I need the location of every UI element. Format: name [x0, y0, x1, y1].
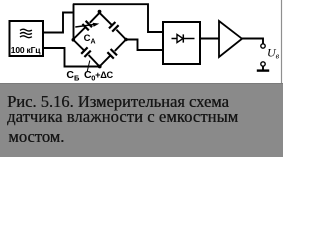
capacitor CA arrow head	[93, 23, 100, 27]
node R junction dot	[124, 38, 128, 42]
ground bar	[257, 69, 269, 71]
capacitor CA plates	[82, 21, 92, 31]
wire top rail to detector	[73, 4, 163, 32]
top-right capacitor plates	[109, 22, 119, 32]
detector U1 box	[163, 22, 200, 64]
bridge arm T-R with capacitor gap	[100, 13, 127, 40]
generator G1 box	[10, 21, 44, 56]
leader line for C0 label	[87, 61, 90, 72]
scan edge line right	[281, 0, 283, 83]
svg-text:CБ: CБ	[66, 69, 80, 83]
bridge arm L-B with capacitor C0 gap	[73, 40, 100, 67]
svg-text:CА: CА	[84, 33, 96, 46]
svg-text:C0+ΔC: C0+ΔC	[84, 69, 114, 83]
output terminal bottom circle	[261, 62, 265, 66]
wire detector output	[200, 38, 219, 40]
diode VD1	[172, 34, 195, 42]
wire generator bottom output to bridge bottom node	[43, 48, 100, 67]
wire generator top output	[43, 13, 73, 33]
node T junction dot	[98, 10, 102, 14]
capacitor CA variable arrow	[75, 24, 95, 27]
ground stem	[262, 66, 264, 69]
output terminal top circle	[261, 44, 265, 48]
generator sine symbol	[20, 29, 32, 37]
bridge arm B-R with capacitor gap	[100, 40, 127, 67]
bottom-left capacitor plates	[81, 47, 91, 57]
wire bridge right node to detector	[126, 40, 163, 51]
node B junction dot	[98, 65, 102, 69]
node L junction dot	[72, 38, 76, 42]
figure caption	[0, 83, 283, 157]
svg-text:100 кГц: 100 кГц	[11, 45, 41, 55]
wire left riser (rail to bridge left node)	[73, 4, 75, 39]
bridge arm L-T with capacitor CA gap	[73, 13, 100, 40]
diode VD1 triangle	[177, 34, 183, 42]
wire amplifier output to terminal	[242, 39, 263, 44]
bottom-right capacitor plates	[107, 49, 117, 59]
amplifier A1 triangle	[219, 21, 242, 57]
svg-text:Uв: Uв	[267, 46, 280, 61]
